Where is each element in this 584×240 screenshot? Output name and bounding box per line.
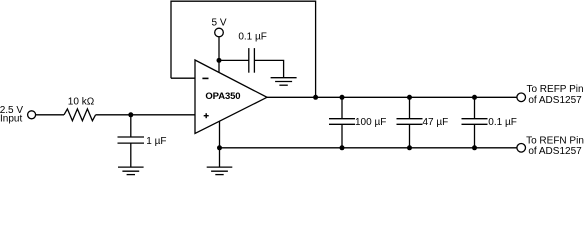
capacitor 1 uF xyxy=(118,137,145,143)
node: C3 top xyxy=(407,95,412,100)
label To REFP Pin of ADS1257 xyxy=(526,84,583,106)
terminal: REFP output xyxy=(517,93,526,102)
wire: capacitor 1 uF to ground xyxy=(130,143,132,167)
terminal: REFN output xyxy=(517,144,526,153)
wire: bypass capacitor to ground xyxy=(254,60,283,77)
wire: feedback loop (output to inverting input) xyxy=(171,1,316,97)
svg-text:5 V: 5 V xyxy=(211,17,226,28)
wire: bottom lead C3 xyxy=(409,124,411,148)
svg-text:To REFP Pin: To REFP Pin xyxy=(526,84,583,95)
resistor 10 kOhm xyxy=(64,109,96,121)
ground (op-amp) xyxy=(207,167,233,175)
wire: feedback to inverting input xyxy=(171,77,195,79)
svg-text:of ADS1257: of ADS1257 xyxy=(528,146,582,157)
wire: bottom lead C2 xyxy=(341,124,343,148)
svg-text:47 µF: 47 µF xyxy=(423,117,449,128)
svg-text:OPA350: OPA350 xyxy=(205,91,240,102)
svg-text:100 µF: 100 µF xyxy=(355,117,386,128)
node: C4 top xyxy=(472,95,477,100)
wire: junction to bypass capacitor xyxy=(219,59,249,61)
wire: junction down to capacitor 1 uF xyxy=(130,115,132,137)
op-amp U1 OPA350 xyxy=(195,60,267,134)
capacitor 100 uF xyxy=(329,119,355,125)
node: RC junction xyxy=(128,112,133,117)
terminal: 2.5 V input xyxy=(28,111,36,119)
wire: top lead C3 xyxy=(409,97,411,118)
wire: top lead C2 xyxy=(341,97,343,118)
node: C2 bottom xyxy=(340,145,345,150)
capacitor 47 uF xyxy=(397,119,423,125)
wire: resistor to op-amp + input xyxy=(96,114,195,116)
wire: input terminal to resistor xyxy=(36,114,64,116)
node: C3 bottom xyxy=(407,145,412,150)
ground (bypass capacitor) xyxy=(271,78,297,86)
svg-text:Input: Input xyxy=(0,114,22,125)
wire: REFN rail xyxy=(220,147,517,149)
ground (1 uF capacitor) xyxy=(118,167,144,175)
label 2.5 V Input xyxy=(0,105,23,124)
capacitor 0.1 uF (output) xyxy=(462,119,488,125)
terminal: 5 V supply xyxy=(215,28,224,37)
wire: bottom lead C4 xyxy=(474,124,476,148)
svg-text:1 µF: 1 µF xyxy=(146,136,166,147)
pin: inverting input (-) xyxy=(202,77,208,79)
svg-text:0.1 µF: 0.1 µF xyxy=(488,117,517,128)
pin: non-inverting input (+) xyxy=(204,113,209,118)
wire: op-amp output to REFP terminal xyxy=(267,96,517,98)
node: C4 bottom xyxy=(472,145,477,150)
svg-text:10 kΩ: 10 kΩ xyxy=(68,96,95,107)
wire: op-amp V- pin to ground xyxy=(219,121,221,167)
node: bypass junction xyxy=(217,58,222,63)
svg-text:of ADS1257: of ADS1257 xyxy=(528,95,582,106)
wire: top lead C4 xyxy=(474,97,476,118)
svg-text:0.1 µF: 0.1 µF xyxy=(238,31,267,42)
wire: 5 V to op-amp V+ pin xyxy=(218,37,220,73)
node: REFN rail junction xyxy=(217,145,222,150)
label To REFN Pin of ADS1257 xyxy=(526,136,584,157)
capacitor 0.1 uF (bypass) xyxy=(249,48,255,73)
node: C2 top xyxy=(340,95,345,100)
node: feedback tap on output xyxy=(313,95,318,100)
